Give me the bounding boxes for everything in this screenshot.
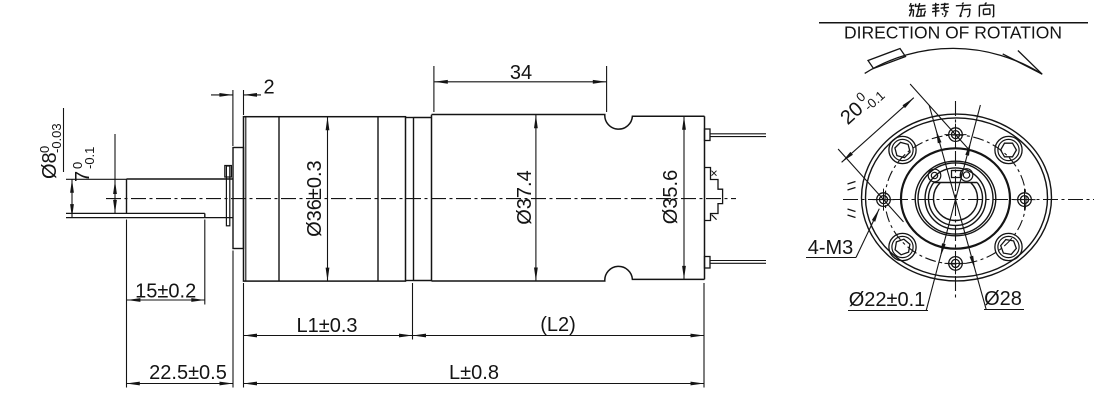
svg-text:4-M3: 4-M3 [808, 237, 854, 259]
svg-text:-0.1: -0.1 [82, 147, 97, 169]
svg-text:34: 34 [510, 62, 532, 84]
svg-text:Ø35.6: Ø35.6 [660, 170, 682, 224]
svg-text:Ø37.4: Ø37.4 [514, 170, 536, 224]
svg-text:L±0.8: L±0.8 [449, 362, 499, 384]
svg-text:Ø28: Ø28 [984, 288, 1022, 310]
svg-text:15±0.2: 15±0.2 [135, 281, 196, 303]
svg-text:L1±0.3: L1±0.3 [296, 315, 357, 337]
svg-text:22.5±0.5: 22.5±0.5 [149, 362, 227, 384]
svg-text:Ø8: Ø8 [39, 152, 61, 179]
svg-text:7: 7 [72, 171, 94, 182]
svg-text:-0.03: -0.03 [49, 123, 64, 153]
svg-text:Ø36±0.3: Ø36±0.3 [304, 160, 326, 237]
svg-text:DIRECTION OF ROTATION: DIRECTION OF ROTATION [844, 23, 1062, 43]
svg-text:2: 2 [263, 77, 274, 99]
svg-text:(L2): (L2) [540, 314, 576, 336]
svg-text:Ø22±0.1: Ø22±0.1 [849, 289, 926, 311]
